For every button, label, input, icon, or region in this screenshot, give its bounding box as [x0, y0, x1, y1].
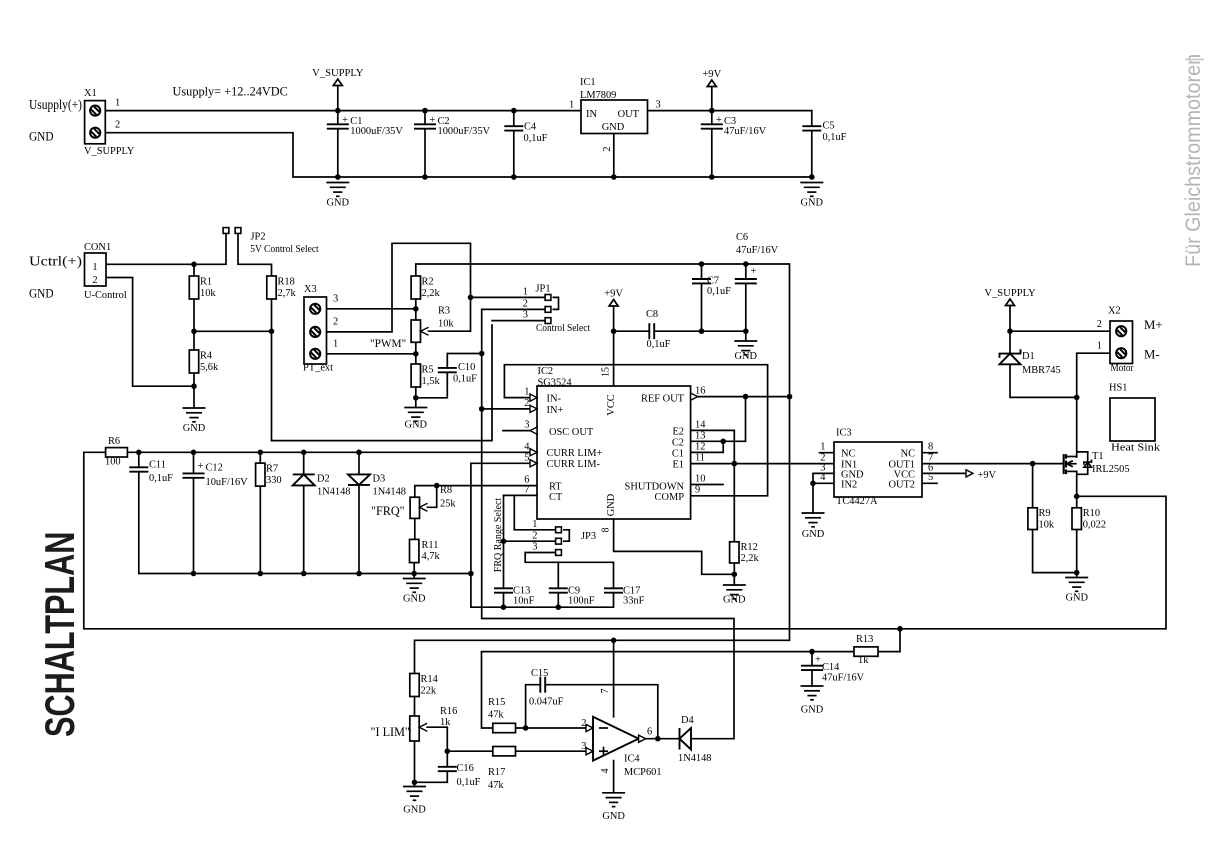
svg-text:0,1uF: 0,1uF	[707, 286, 731, 297]
svg-text:HS1: HS1	[1109, 383, 1127, 394]
svg-text:R8: R8	[440, 485, 452, 496]
svg-text:|: |	[1183, 57, 1205, 62]
svg-text:2: 2	[92, 275, 97, 286]
svg-text:0,1uF: 0,1uF	[823, 132, 847, 143]
svg-text:PT_ext: PT_ext	[303, 363, 333, 374]
svg-text:1: 1	[569, 100, 574, 111]
svg-text:1: 1	[523, 287, 528, 298]
svg-text:1: 1	[524, 387, 529, 398]
svg-text:16: 16	[695, 386, 705, 397]
svg-text:8: 8	[928, 442, 933, 453]
svg-text:0.047uF: 0.047uF	[529, 697, 564, 708]
svg-text:47k: 47k	[488, 780, 504, 791]
svg-text:1: 1	[92, 262, 97, 273]
svg-text:NC: NC	[901, 449, 916, 460]
svg-text:CURR LIM+: CURR LIM+	[547, 448, 603, 459]
svg-text:GND: GND	[29, 287, 54, 301]
svg-text:OUT: OUT	[618, 109, 640, 120]
svg-text:COMP: COMP	[655, 492, 685, 503]
svg-text:GND: GND	[801, 198, 824, 209]
svg-text:D2: D2	[317, 474, 330, 485]
svg-text:9: 9	[695, 485, 700, 496]
svg-text:10nF: 10nF	[513, 596, 535, 607]
svg-text:C1: C1	[672, 449, 684, 460]
svg-text:SHUTDOWN: SHUTDOWN	[625, 482, 685, 493]
svg-text:MCP601: MCP601	[624, 767, 662, 778]
svg-text:R2: R2	[422, 276, 434, 287]
svg-text:M+: M+	[1144, 318, 1163, 332]
svg-text:V_SUPPLY: V_SUPPLY	[84, 146, 135, 157]
svg-text:Uctrl(+): Uctrl(+)	[29, 253, 82, 268]
svg-text:3: 3	[656, 100, 661, 111]
svg-text:2: 2	[581, 718, 586, 729]
svg-text:R4: R4	[200, 350, 213, 361]
svg-text:D3: D3	[373, 474, 386, 485]
svg-text:10k: 10k	[200, 288, 216, 299]
svg-text:1N4148: 1N4148	[373, 487, 406, 498]
svg-text:25k: 25k	[440, 499, 456, 510]
svg-text:RT: RT	[549, 482, 562, 493]
svg-text:1: 1	[333, 339, 338, 350]
svg-text:CON1: CON1	[84, 242, 111, 253]
svg-text:33nF: 33nF	[623, 596, 645, 607]
svg-text:C5: C5	[823, 121, 835, 132]
svg-text:1: 1	[115, 98, 120, 109]
svg-text:+: +	[751, 266, 757, 277]
svg-text:47uF/16V: 47uF/16V	[822, 672, 865, 683]
svg-text:2: 2	[602, 147, 613, 152]
svg-text:C1: C1	[350, 116, 362, 127]
svg-text:C2: C2	[438, 116, 450, 127]
svg-text:GND: GND	[602, 122, 625, 133]
svg-text:1: 1	[820, 442, 825, 453]
svg-text:13: 13	[695, 431, 705, 442]
svg-text:JP3: JP3	[581, 531, 596, 542]
svg-text:12: 12	[695, 442, 705, 453]
svg-text:2: 2	[115, 120, 120, 131]
svg-text:IC2: IC2	[538, 366, 554, 377]
svg-text:E2: E2	[672, 427, 684, 438]
svg-text:11: 11	[695, 453, 705, 464]
svg-text:+: +	[815, 655, 821, 666]
svg-text:R18: R18	[278, 276, 295, 287]
svg-text:R5: R5	[422, 364, 434, 375]
svg-text:100nF: 100nF	[568, 596, 595, 607]
svg-text:47uF/16V: 47uF/16V	[724, 126, 767, 137]
svg-text:R1: R1	[200, 276, 212, 287]
svg-text:2: 2	[532, 531, 537, 542]
svg-text:+: +	[429, 115, 435, 126]
svg-text:R11: R11	[422, 540, 439, 551]
svg-text:C8: C8	[646, 309, 658, 320]
svg-text:C15: C15	[531, 668, 548, 679]
svg-text:2,2k: 2,2k	[741, 553, 760, 564]
svg-text:3: 3	[333, 294, 338, 305]
svg-text:0,1uF: 0,1uF	[524, 133, 548, 144]
svg-text:2: 2	[523, 298, 528, 309]
svg-text:V_SUPPLY: V_SUPPLY	[984, 288, 1036, 299]
svg-text:IC3: IC3	[836, 428, 852, 439]
svg-text:R16: R16	[440, 706, 457, 717]
svg-text:R13: R13	[856, 634, 873, 645]
svg-text:Usupply(+): Usupply(+)	[29, 97, 82, 112]
svg-text:1,5k: 1,5k	[422, 376, 441, 387]
svg-text:"FRQ": "FRQ"	[371, 504, 405, 518]
svg-text:0,1uF: 0,1uF	[457, 777, 481, 788]
svg-text:1k: 1k	[440, 717, 451, 728]
svg-text:+: +	[716, 115, 722, 126]
svg-text:IRL2505: IRL2505	[1092, 464, 1130, 475]
svg-text:E1: E1	[672, 460, 684, 471]
svg-text:GND: GND	[183, 423, 206, 434]
svg-text:JP1: JP1	[536, 284, 551, 295]
svg-text:JP2: JP2	[251, 232, 266, 243]
svg-text:V_SUPPLY: V_SUPPLY	[312, 68, 364, 79]
svg-text:0,1uF: 0,1uF	[453, 374, 477, 385]
svg-text:330: 330	[266, 475, 282, 486]
svg-text:X1: X1	[84, 88, 97, 99]
svg-text:2,2k: 2,2k	[422, 288, 441, 299]
svg-text:IN: IN	[586, 109, 597, 120]
svg-text:OUT2: OUT2	[888, 479, 915, 490]
svg-text:CURR LIM-: CURR LIM-	[547, 459, 601, 470]
svg-text:C12: C12	[206, 463, 223, 474]
svg-text:10: 10	[695, 474, 705, 485]
svg-text:10k: 10k	[1039, 519, 1055, 530]
svg-text:SCHALTPLAN: SCHALTPLAN	[36, 532, 83, 737]
svg-text:GND: GND	[606, 493, 617, 516]
svg-text:Usupply= +12..24VDC: Usupply= +12..24VDC	[173, 85, 288, 99]
svg-text:1: 1	[532, 519, 537, 530]
svg-text:10uF/16V: 10uF/16V	[206, 477, 249, 488]
svg-text:VCC: VCC	[606, 394, 617, 415]
svg-text:5: 5	[928, 472, 933, 483]
svg-text:+9V: +9V	[702, 69, 721, 80]
svg-text:2: 2	[1097, 319, 1102, 330]
svg-text:2: 2	[333, 317, 338, 328]
svg-text:R14: R14	[421, 674, 439, 685]
svg-text:5V Control Select: 5V Control Select	[250, 243, 319, 255]
svg-text:GND: GND	[723, 595, 746, 606]
svg-text:TC4427A: TC4427A	[836, 496, 878, 507]
svg-text:GND: GND	[735, 351, 758, 362]
svg-text:C4: C4	[524, 122, 537, 133]
svg-text:Heat Sink: Heat Sink	[1111, 443, 1161, 454]
svg-text:NC: NC	[841, 449, 856, 460]
svg-text:SG3524: SG3524	[538, 378, 573, 389]
svg-text:4: 4	[524, 442, 530, 453]
svg-text:C3: C3	[724, 116, 736, 127]
svg-text:1k: 1k	[858, 655, 869, 666]
svg-text:IN2: IN2	[841, 479, 857, 490]
svg-text:LM7809: LM7809	[580, 90, 616, 101]
svg-text:FRQ Range Select: FRQ Range Select	[493, 498, 504, 573]
svg-text:U-Control: U-Control	[84, 290, 127, 301]
svg-text:GND: GND	[801, 705, 824, 716]
svg-text:C11: C11	[149, 460, 166, 471]
svg-text:GND: GND	[29, 130, 54, 144]
svg-text:+9V: +9V	[978, 470, 997, 481]
svg-text:Motor: Motor	[1111, 363, 1134, 374]
svg-text:"PWM": "PWM"	[370, 338, 406, 350]
svg-text:C2: C2	[672, 438, 684, 449]
svg-text:4,7k: 4,7k	[422, 551, 441, 562]
svg-text:Für Gleichstrommotoren: Für Gleichstrommotoren	[1181, 54, 1205, 267]
svg-text:GND: GND	[802, 529, 825, 540]
svg-text:X3: X3	[304, 284, 317, 295]
svg-text:2: 2	[524, 398, 529, 409]
svg-text:+: +	[342, 115, 348, 126]
svg-text:6: 6	[647, 727, 652, 738]
svg-text:R12: R12	[741, 542, 758, 553]
svg-text:100: 100	[105, 457, 121, 468]
svg-text:M-: M-	[1144, 348, 1160, 362]
svg-text:15: 15	[601, 367, 612, 377]
svg-text:"I LIM": "I LIM"	[371, 725, 410, 739]
svg-text:1: 1	[1097, 341, 1102, 352]
svg-text:Control Select: Control Select	[536, 323, 590, 334]
svg-text:5,6k: 5,6k	[200, 362, 219, 373]
svg-text:GND: GND	[327, 198, 350, 209]
svg-text:GND: GND	[403, 594, 426, 605]
svg-text:IN+: IN+	[547, 405, 564, 416]
svg-text:C16: C16	[457, 763, 474, 774]
svg-text:47uF/16V: 47uF/16V	[736, 245, 779, 256]
svg-text:R17: R17	[488, 767, 505, 778]
svg-text:R3: R3	[438, 306, 450, 317]
svg-text:3: 3	[581, 741, 586, 752]
svg-text:D4: D4	[681, 715, 695, 726]
svg-text:IC4: IC4	[624, 754, 640, 765]
svg-text:X2: X2	[1108, 306, 1121, 317]
svg-text:MBR745: MBR745	[1022, 365, 1061, 376]
svg-text:IN-: IN-	[547, 394, 562, 405]
svg-text:R10: R10	[1083, 508, 1100, 519]
svg-text:GND: GND	[602, 811, 625, 822]
svg-text:GND: GND	[403, 805, 426, 816]
svg-text:R9: R9	[1039, 508, 1051, 519]
svg-text:5: 5	[524, 453, 529, 464]
svg-text:4: 4	[600, 769, 611, 774]
svg-text:2,7k: 2,7k	[278, 288, 297, 299]
svg-text:CT: CT	[549, 492, 563, 503]
svg-text:C10: C10	[458, 362, 475, 373]
svg-text:4: 4	[820, 472, 826, 483]
svg-text:22k: 22k	[421, 685, 437, 696]
svg-text:14: 14	[695, 420, 706, 431]
svg-text:1N4148: 1N4148	[678, 753, 711, 764]
svg-text:1000uF/35V: 1000uF/35V	[438, 126, 491, 137]
svg-text:3: 3	[524, 420, 529, 431]
svg-text:R15: R15	[488, 697, 505, 708]
svg-text:R7: R7	[266, 464, 278, 475]
svg-text:1N4148: 1N4148	[317, 487, 350, 498]
svg-text:+9V: +9V	[604, 289, 623, 300]
svg-text:47k: 47k	[488, 710, 504, 721]
svg-text:GND: GND	[405, 420, 428, 431]
svg-text:D1: D1	[1022, 351, 1035, 362]
svg-text:R6: R6	[108, 436, 120, 447]
svg-text:C6: C6	[736, 232, 748, 243]
svg-text:1000uF/35V: 1000uF/35V	[350, 126, 403, 137]
svg-text:GND: GND	[1065, 593, 1088, 604]
svg-text:0,1uF: 0,1uF	[149, 473, 173, 484]
svg-text:7: 7	[600, 689, 611, 694]
svg-text:10k: 10k	[438, 319, 454, 330]
svg-text:IC1: IC1	[580, 77, 596, 88]
svg-text:T1: T1	[1092, 451, 1104, 462]
svg-text:3: 3	[523, 309, 528, 320]
svg-text:OSC OUT: OSC OUT	[549, 427, 594, 438]
svg-text:7: 7	[524, 485, 529, 496]
svg-text:0,1uF: 0,1uF	[647, 339, 671, 350]
svg-text:8: 8	[601, 528, 612, 533]
svg-text:REF OUT: REF OUT	[641, 394, 685, 405]
svg-text:3: 3	[532, 542, 537, 553]
svg-text:0,022: 0,022	[1083, 519, 1106, 530]
svg-text:+: +	[198, 461, 204, 472]
